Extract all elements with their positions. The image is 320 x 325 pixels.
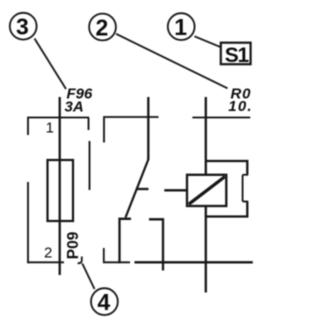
connector housing top edge (relay branch): [192, 117, 250, 119]
connector hook at P09: [78, 257, 82, 264]
wire: left conductor through fuse: [59, 97, 61, 275]
svg-text:3: 3: [16, 14, 29, 40]
housing bottom edge (fuse branch): [27, 261, 64, 263]
connector bracket on parallel branch: [243, 175, 249, 202]
svg-text:P09: P09: [65, 231, 82, 259]
wire: middle conductor to switch: [147, 97, 149, 160]
svg-text:S1: S1: [225, 44, 250, 67]
callout circle 2: [89, 14, 116, 41]
wire: switch to relay coil: [164, 189, 187, 191]
leader line from callout 1 to switch box S1: [195, 36, 221, 47]
svg-text:3A: 3A: [65, 99, 84, 116]
wire: switch lower terminal corner down to bus: [149, 219, 163, 270]
connector stub right (fuse branch): [88, 118, 90, 131]
relay coil K (box with diagonal): [187, 175, 226, 206]
leader line from callout 3 to fuse F96: [35, 39, 67, 90]
svg-text:4: 4: [97, 289, 110, 315]
wire: right conductor into relay: [205, 97, 207, 175]
svg-text:2: 2: [96, 14, 109, 40]
switch fixed contact tick: [137, 188, 149, 190]
leader line from callout 4 to P09: [82, 264, 94, 290]
callout circle 3: [10, 13, 37, 40]
svg-text:10.: 10.: [228, 98, 252, 115]
housing dash left side (fuse branch): [27, 182, 29, 263]
wire: parallel branch top: [206, 161, 248, 174]
svg-text:1: 1: [46, 120, 54, 137]
callout circle 1: [168, 13, 195, 40]
bottom bus wire: [135, 261, 253, 263]
connector housing top edge (switch branch): [104, 117, 159, 143]
connector housing top edge (fuse branch): [28, 118, 89, 136]
switch lever: [126, 160, 149, 218]
callout circle 4: [91, 288, 118, 315]
housing bottom corner (switch branch): [104, 248, 130, 262]
wire: switch foot to bottom bus: [120, 219, 132, 263]
component box S1: [221, 43, 251, 67]
wire: parallel branch bottom: [206, 202, 248, 217]
leader line from callout 2 to relay label R0: [116, 34, 228, 89]
wire: relay bottom conductor: [205, 206, 207, 293]
housing dash right side (fuse branch): [89, 141, 91, 190]
svg-text:2: 2: [44, 245, 52, 262]
svg-text:1: 1: [174, 14, 187, 40]
fuse F96 body: [48, 160, 74, 221]
